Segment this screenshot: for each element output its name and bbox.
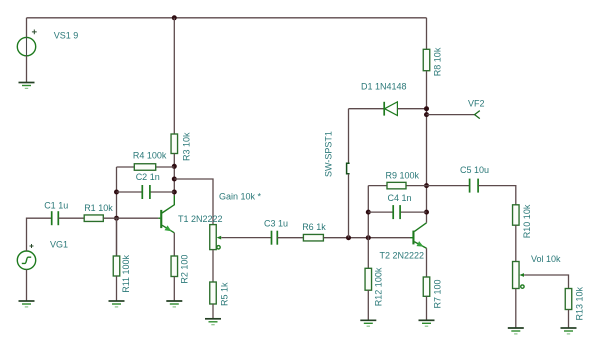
svg-text:R1 10k: R1 10k [84, 203, 113, 213]
wire gain branch [174, 179, 213, 225]
diode D1 [384, 102, 397, 116]
resistor R10 [513, 205, 520, 225]
junction R4 right [172, 164, 177, 169]
wire C3 to R6 [277, 237, 303, 239]
svg-text:C5 10u: C5 10u [460, 165, 489, 175]
wire T1 emitter column [173, 233, 175, 256]
ground below Vol pot [508, 328, 524, 334]
wire R9 leads [368, 185, 426, 187]
potentiometer Vol 10k [513, 262, 525, 289]
wire Vol pot bottom [515, 289, 517, 329]
ground below R2 [166, 301, 182, 307]
wire R2 bottom [173, 277, 175, 302]
svg-text:C3 1u: C3 1u [264, 218, 288, 228]
wire C4 leads [368, 211, 426, 213]
resistor R8 [423, 49, 430, 70]
wire R6 to T2 base [323, 237, 410, 239]
svg-text:R6 1k: R6 1k [302, 222, 326, 232]
resistor R3 [171, 134, 178, 154]
switch SW-SPST1 [347, 163, 350, 174]
resistor R11 [113, 256, 120, 276]
wire R11 column [116, 218, 118, 256]
wire gain pot bottom [212, 250, 214, 282]
svg-text:R10 10k: R10 10k [522, 204, 532, 238]
svg-text:T2 2N2222: T2 2N2222 [380, 250, 425, 260]
svg-text:R5 1k: R5 1k [220, 282, 230, 306]
ground below R12 [360, 320, 376, 326]
svg-text:VG1: VG1 [50, 240, 68, 250]
wire T2 emitter column [426, 248, 428, 277]
wire C2 leads [117, 191, 175, 193]
svg-text:T1 2N2222: T1 2N2222 [178, 214, 223, 224]
junction gain branch [172, 177, 177, 182]
svg-text:Vol 10k: Vol 10k [531, 254, 561, 264]
wire R3 column upper [173, 18, 175, 134]
junction C2 right [172, 190, 177, 195]
svg-text:R7 100: R7 100 [433, 279, 443, 308]
transistor T2 [410, 223, 427, 248]
wire VF2 [427, 114, 476, 116]
wire R10 to Vol pot [515, 225, 517, 261]
junction C4 right [424, 210, 429, 215]
junction switch column [346, 235, 351, 240]
ground below R7 [419, 320, 435, 326]
wire diode left lead [349, 108, 385, 110]
wire left feedback column [116, 167, 118, 256]
wire VS1 top lead [26, 18, 28, 38]
wire R11 bottom [116, 276, 118, 301]
resistor R6 [303, 234, 323, 241]
resistor R13 [565, 289, 572, 310]
resistor R7 [423, 277, 430, 296]
ground below VG1 [19, 301, 35, 307]
svg-text:C1 1u: C1 1u [44, 200, 68, 210]
svg-text:VS1 9: VS1 9 [54, 31, 79, 41]
svg-text:R4 100k: R4 100k [133, 151, 167, 161]
wire VG1 top lead [27, 218, 52, 251]
svg-text:R13 10k: R13 10k [575, 286, 585, 320]
resistor R4 [134, 164, 155, 171]
wire switch column lower [348, 174, 350, 238]
svg-text:C2 1n: C2 1n [136, 172, 160, 182]
wire R1 to T1 base [103, 217, 158, 219]
svg-text:Gain 10k *: Gain 10k * [219, 191, 262, 201]
wire VG1 bottom lead [26, 269, 28, 301]
wire R4 leads [117, 166, 175, 168]
wire R12 top [367, 238, 369, 269]
junction VF2 node [424, 112, 429, 117]
resistor R5 [210, 282, 217, 304]
svg-text:C4 1n: C4 1n [388, 193, 412, 203]
svg-text:D1 1N4148: D1 1N4148 [361, 82, 407, 92]
capacitor C2 [142, 185, 150, 199]
junction diode node [424, 106, 429, 111]
ground below R11 [109, 301, 125, 307]
potentiometer Gain 10k [210, 225, 221, 250]
wire R8 top lead [426, 18, 428, 50]
voltage generator VG1 [17, 244, 35, 269]
transistor T1 [158, 196, 174, 233]
svg-text:R8 10k: R8 10k [433, 47, 443, 76]
wire switch column upper [348, 109, 350, 164]
svg-text:R9 100k: R9 100k [386, 171, 420, 181]
wire top rail [27, 17, 427, 19]
svg-text:R12 100k: R12 100k [373, 267, 383, 306]
junction C4 left [366, 210, 371, 215]
wire C5 left lead [427, 185, 470, 187]
wire R13 bottom [568, 310, 570, 329]
resistor R2 [171, 256, 178, 277]
svg-text:VF2: VF2 [468, 99, 485, 109]
junction C2 left [114, 190, 119, 195]
ground below VS1 [19, 83, 35, 89]
wire right column [426, 71, 428, 223]
junction R12 column [366, 235, 371, 240]
wire C5 right lead [478, 186, 516, 205]
wire R5 bottom [212, 304, 214, 319]
junction top rail / R3 branch [172, 15, 177, 20]
junction R9 right [424, 183, 429, 188]
capacitor C1 [52, 211, 59, 225]
terminal VF2 [475, 111, 480, 119]
wire VS1 bottom lead [26, 56, 28, 83]
resistor R9 [387, 182, 406, 189]
junction base row left [114, 216, 119, 221]
capacitor C3 [272, 231, 278, 245]
resistor R12 [365, 268, 372, 290]
wire C1 to R1 [58, 217, 84, 219]
wire Vol wiper to R13 [524, 275, 568, 289]
svg-text:R2 100: R2 100 [179, 255, 189, 284]
wire R7 bottom [426, 296, 428, 320]
ground below R5 [205, 319, 221, 325]
svg-text:R11 100k: R11 100k [121, 254, 131, 292]
ground below R13 [561, 328, 577, 334]
wire gain wiper to C3 [221, 237, 271, 239]
wire R3 column lower [173, 154, 175, 197]
wire feedback left column T2 [367, 186, 369, 238]
wire diode right lead [398, 108, 427, 110]
resistor R1 [84, 215, 103, 222]
svg-text:R3 10k: R3 10k [181, 132, 191, 161]
capacitor C4 [393, 205, 400, 219]
svg-text:SW-SPST1: SW-SPST1 [324, 131, 334, 177]
capacitor C5 [470, 179, 479, 193]
wire R12 bottom [367, 290, 369, 320]
voltage source VS1 [17, 30, 36, 56]
